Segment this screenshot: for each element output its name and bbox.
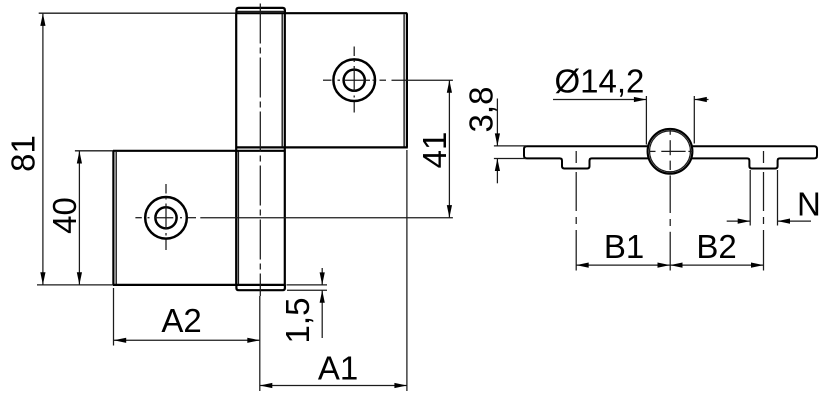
left hole vertical centerline [165, 184, 167, 250]
dimension N [727, 170, 821, 226]
pin cap bottom [236, 285, 285, 290]
svg-text:B2: B2 [696, 228, 736, 265]
dimension A1 [260, 150, 407, 391]
right leaf [236, 13, 407, 147]
dimension 3,8 [463, 87, 527, 184]
knuckle circle [648, 129, 693, 174]
right hole [333, 59, 375, 101]
leaf top edge / extension line 81 top [39, 12, 408, 14]
right hole horizontal centerline / extension 41 top [323, 79, 453, 81]
left hole [145, 197, 187, 239]
hinge barrel knuckles [236, 13, 285, 285]
dimension 40 [46, 151, 83, 285]
svg-text:41: 41 [416, 132, 453, 169]
dimension B2 [670, 228, 764, 268]
dimension A2 [114, 288, 260, 346]
barrel centerline [259, 4, 261, 297]
left leaf [37, 151, 285, 285]
right hole vertical centerline [353, 47, 355, 113]
dimension Ø14,2 [553, 63, 709, 145]
right tab centerline [763, 151, 765, 271]
svg-text:B1: B1 [604, 228, 644, 265]
extension line barrel center (A2/A1) [259, 296, 261, 391]
left tab centerline [575, 151, 577, 271]
dimension 1,5 [279, 268, 327, 343]
svg-text:1,5: 1,5 [279, 298, 316, 344]
svg-text:A1: A1 [318, 349, 358, 386]
dimension 81 [5, 13, 46, 284]
svg-text:81: 81 [5, 135, 42, 172]
knuckle circle centerline vertical [669, 129, 671, 271]
left hole horizontal centerline / extension 41 bottom [135, 217, 453, 219]
top view bar outline [524, 146, 817, 168]
dimension B1 [576, 228, 670, 268]
knuckle circle centerline horizontal [650, 150, 693, 152]
svg-text:Ø14,2: Ø14,2 [555, 63, 645, 100]
svg-text:N: N [797, 186, 821, 223]
svg-text:40: 40 [46, 197, 83, 234]
svg-text:3,8: 3,8 [463, 87, 500, 133]
pin cap top [236, 8, 285, 13]
svg-text:A2: A2 [161, 302, 201, 339]
dimension 41 [416, 80, 453, 217]
